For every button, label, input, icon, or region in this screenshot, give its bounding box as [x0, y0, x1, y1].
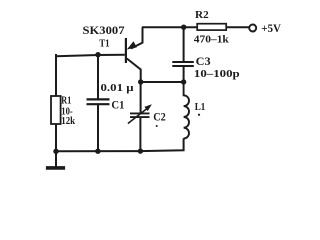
svg-text:L1: L1: [195, 101, 206, 113]
svg-text:C1: C1: [111, 99, 124, 111]
svg-text:C2: C2: [153, 112, 166, 124]
svg-text:470–1k: 470–1k: [194, 34, 230, 46]
svg-text:12k: 12k: [61, 116, 75, 127]
svg-text:10–100p: 10–100p: [194, 68, 240, 80]
svg-text:+5V: +5V: [261, 21, 281, 35]
svg-text:R2: R2: [195, 9, 209, 21]
svg-text:T1: T1: [99, 38, 109, 50]
svg-text:SK3007: SK3007: [83, 25, 125, 37]
svg-text:0.01 μ: 0.01 μ: [101, 83, 134, 94]
svg-text:C3: C3: [196, 56, 211, 68]
svg-text:R1: R1: [61, 96, 71, 107]
